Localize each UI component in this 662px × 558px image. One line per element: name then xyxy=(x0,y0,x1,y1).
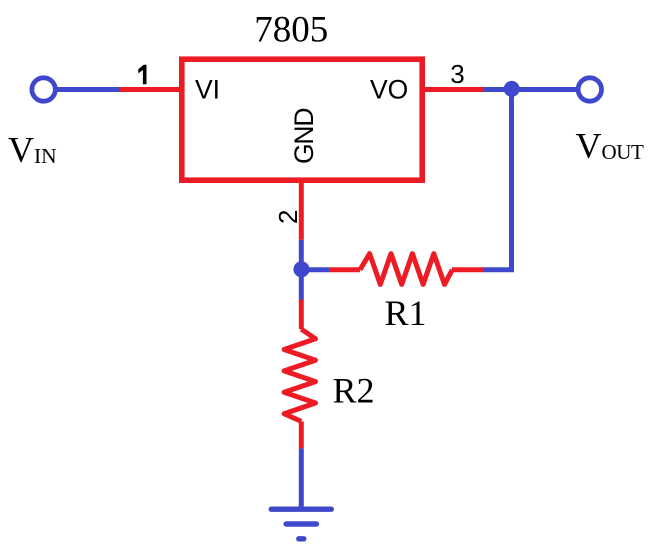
pin number 2 xyxy=(273,210,303,224)
label R2 xyxy=(333,371,375,411)
wire xyxy=(55,87,120,92)
svg-text:VI: VI xyxy=(195,75,220,105)
svg-text:R2: R2 xyxy=(333,371,375,411)
pin label VI xyxy=(195,75,220,105)
node VOUT label xyxy=(576,126,645,166)
pin number 1 xyxy=(138,65,146,85)
pin number 3 xyxy=(450,59,464,89)
node GND junction xyxy=(293,261,309,277)
svg-text:2: 2 xyxy=(273,210,303,224)
svg-text:GND: GND xyxy=(289,109,319,164)
node output junction xyxy=(504,81,520,97)
wire xyxy=(299,300,304,330)
svg-text:R1: R1 xyxy=(385,293,427,333)
ground xyxy=(271,509,331,539)
terminal VOUT xyxy=(578,78,601,101)
wire xyxy=(299,421,304,448)
wire xyxy=(299,240,304,270)
svg-text:VOUT: VOUT xyxy=(576,126,645,166)
wire xyxy=(329,267,360,272)
node VIN label xyxy=(8,130,57,170)
resistor R1 xyxy=(360,254,452,285)
svg-text:VIN: VIN xyxy=(8,130,57,170)
wire xyxy=(301,267,329,272)
label 7805 xyxy=(254,10,328,51)
terminal VIN xyxy=(32,78,55,101)
label R1 xyxy=(385,293,427,333)
svg-text:VO: VO xyxy=(370,75,408,105)
pin label GND xyxy=(289,109,319,164)
wire xyxy=(484,87,579,92)
svg-text:7805: 7805 xyxy=(254,10,328,51)
wire xyxy=(299,448,304,509)
pin label VO xyxy=(370,75,408,105)
resistor R2 xyxy=(284,329,315,421)
wire xyxy=(452,267,484,272)
wire xyxy=(120,87,181,92)
wire xyxy=(424,87,484,92)
regulator U1 7805 box xyxy=(182,59,422,180)
svg-text:3: 3 xyxy=(450,59,464,89)
wire xyxy=(299,182,304,240)
wire xyxy=(299,270,304,300)
wire xyxy=(484,90,512,270)
